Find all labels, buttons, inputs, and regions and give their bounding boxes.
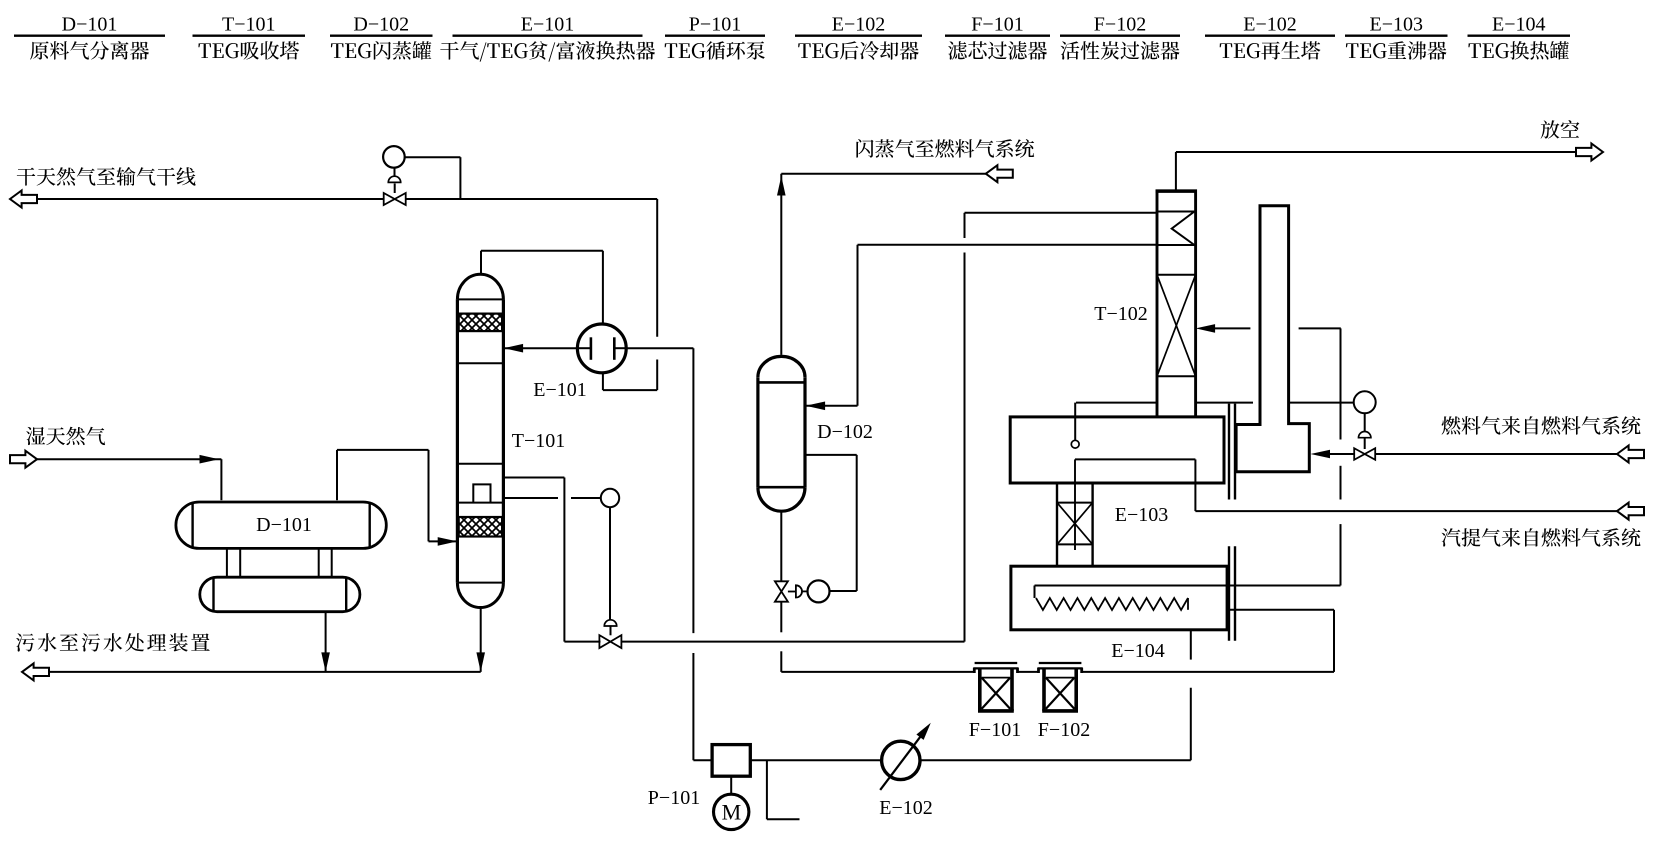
vessel D-101 upper shell xyxy=(176,502,386,548)
fuel valve actuator xyxy=(1359,413,1371,449)
label E-104 xyxy=(1111,640,1165,662)
T-101 chimney tray xyxy=(457,484,503,502)
svg-text:D−102: D−102 xyxy=(817,421,873,443)
stream label 闪蒸气至燃料气系统 xyxy=(856,139,1034,158)
pump P-101 motor xyxy=(714,776,749,829)
filter F-102 lid xyxy=(1038,663,1083,673)
pipe E-102 to E-104 vertical xyxy=(920,630,1191,761)
tank E-104 shell xyxy=(1011,566,1227,630)
control valve fuel gas xyxy=(1354,448,1375,460)
open arrow wastewater outlet xyxy=(22,663,49,680)
svg-text:F−101: F−101 xyxy=(971,14,1023,36)
pipe D-101 interconnect left xyxy=(227,548,240,577)
cooler E-102 shell xyxy=(882,741,920,779)
stream label 污水至污水处理装置 xyxy=(16,633,210,651)
svg-text:E−103: E−103 xyxy=(1115,504,1169,526)
pump P-101 casing xyxy=(712,745,750,777)
filter F-102 body xyxy=(1042,668,1078,711)
svg-text:F−102: F−102 xyxy=(1038,719,1090,741)
T-101 section line xyxy=(457,362,503,364)
T-101 packing band lower xyxy=(459,517,502,537)
instrument circle PCV controller xyxy=(383,146,405,168)
legend entry E-102 TEG后冷却器 xyxy=(795,14,922,60)
stream label 汽提气来自燃料气系统 xyxy=(1442,528,1641,547)
pipe T-102 condensate to D-102 xyxy=(805,245,1157,410)
legend entry D-101 原料气分离器 xyxy=(14,14,165,60)
vessel D-102 shell xyxy=(758,356,805,511)
pipe T-101 chimney draw-off xyxy=(502,478,564,642)
legend entry T-101 TEG吸收塔 xyxy=(193,14,306,60)
pipe filters to E-104 coil xyxy=(1083,610,1334,672)
pipe dry gas sales line xyxy=(37,198,657,200)
E-103 downcomer column xyxy=(1057,459,1093,566)
E-103 right flange xyxy=(1229,404,1235,500)
open arrow fuel gas inlet xyxy=(1617,446,1644,463)
pipe rich TEG riser to T-102 xyxy=(965,213,1158,642)
control valve D-102 drain xyxy=(775,581,788,601)
svg-text:E−102: E−102 xyxy=(1243,14,1297,36)
pipe D-102 level sensing xyxy=(805,455,857,591)
pipe E-103 level sensing line xyxy=(1076,402,1354,404)
legend entry E-103 TEG重沸器 xyxy=(1345,14,1448,60)
legend entry D-102 TEG闪蒸罐 xyxy=(330,14,433,60)
open arrow flash gas outlet xyxy=(986,165,1013,182)
pipe fuel gas to stack xyxy=(1311,450,1618,459)
svg-text:E−103: E−103 xyxy=(1370,14,1424,36)
pipe coil to T-102 riser xyxy=(1340,328,1342,585)
legend entry E-104 TEG换热罐 xyxy=(1468,14,1571,60)
PCV sensing line xyxy=(404,157,460,199)
T-101 chimney tray section line xyxy=(457,463,503,465)
pipe E-101 TEG inlet from pump riser xyxy=(626,347,694,349)
svg-text:M: M xyxy=(722,800,742,825)
svg-text:T−102: T−102 xyxy=(1094,303,1148,325)
filter F-101 lid xyxy=(973,663,1018,673)
pipe riser E-101 to P-101 xyxy=(693,348,712,760)
svg-text:E−102: E−102 xyxy=(879,797,933,819)
legend entry P-101 TEG循环泵 xyxy=(665,14,765,60)
label T-101 xyxy=(512,430,566,452)
instrument circle T-101 level controller xyxy=(502,489,619,507)
pipe wet gas to D-101 xyxy=(37,455,221,500)
legend entry F-101 滤芯过滤器 xyxy=(945,14,1050,60)
svg-text:D−102: D−102 xyxy=(353,14,409,36)
pipe D-101 gas outlet to T-101 xyxy=(337,450,457,546)
stack TEG surge standpipe xyxy=(1236,206,1309,472)
PCV actuator diaphragm xyxy=(388,167,400,193)
exchanger E-101 shell xyxy=(577,324,626,373)
vessel D-101 lower shell xyxy=(200,577,360,612)
svg-text:T−101: T−101 xyxy=(222,14,276,36)
tower T-102 shell xyxy=(1156,191,1197,417)
T-102 packing top line xyxy=(1157,274,1196,276)
pipe T-102 vent xyxy=(1176,152,1576,190)
E-103 level tap with weep hole xyxy=(1071,403,1079,449)
LCV T-101 actuator stem xyxy=(604,507,616,635)
T-102 packing bottom line xyxy=(1157,375,1196,377)
filter F-101 body xyxy=(978,668,1014,711)
instrument circle D-102 level controller xyxy=(808,580,830,602)
node sales line riser corner xyxy=(603,199,657,390)
E-102 diagonal arrow xyxy=(880,723,931,790)
svg-text:E−104: E−104 xyxy=(1111,640,1165,662)
instrument circle fuel gas level controller xyxy=(1354,391,1376,413)
open arrow dry natural gas outlet xyxy=(10,191,37,208)
pipe flash gas from D-102 xyxy=(777,174,986,355)
control valve LCV rich TEG xyxy=(564,635,964,648)
svg-text:P−101: P−101 xyxy=(648,787,700,809)
pipe D-101 drain xyxy=(321,612,330,672)
T-102 reflux coil chevron xyxy=(1172,212,1195,246)
label E-101 xyxy=(533,379,587,401)
E-101 tube sheets xyxy=(579,337,626,360)
legend entry F-102 活性炭过滤器 xyxy=(1060,14,1180,60)
T-101 packing band upper xyxy=(459,314,502,332)
pipe D-101 interconnect right xyxy=(319,548,332,577)
label F-102 xyxy=(1038,719,1090,741)
stream label 燃料气来自燃料气系统 xyxy=(1442,416,1641,435)
open arrow vent xyxy=(1576,144,1603,161)
svg-text:F−102: F−102 xyxy=(1094,14,1146,36)
label E-102 xyxy=(879,797,933,819)
D-102 LCV actuator xyxy=(788,585,808,597)
open arrow wet natural gas inlet xyxy=(10,451,37,468)
label T-102 xyxy=(1094,303,1148,325)
pipe E-101 lean TEG to T-101 xyxy=(504,344,579,353)
stream label 干天然气至输气干线 xyxy=(17,167,196,186)
pipe stripping gas to T-102 packing xyxy=(1196,324,1341,333)
pipe P-101 drain stub xyxy=(767,760,800,819)
stream label 湿天然气 xyxy=(26,427,105,445)
pipe wastewater header xyxy=(49,671,481,673)
T-102 top section line xyxy=(1157,211,1196,213)
pipe D-102 drain to filters xyxy=(781,511,973,672)
svg-text:E−101: E−101 xyxy=(521,14,575,36)
control valve PCV on sales line xyxy=(384,193,406,205)
svg-text:E−102: E−102 xyxy=(832,14,886,36)
label F-101 xyxy=(969,719,1021,741)
svg-text:D−101: D−101 xyxy=(62,14,118,36)
reboiler E-103 shell xyxy=(1010,417,1224,483)
svg-text:E−104: E−104 xyxy=(1492,14,1546,36)
pipe T-101 overhead to E-101 xyxy=(481,251,603,325)
pipe stripping gas supply xyxy=(1075,459,1617,511)
open arrow stripping gas inlet xyxy=(1617,503,1644,520)
tower T-101 shell xyxy=(457,274,503,607)
T-102 packing X xyxy=(1157,275,1196,376)
stream label 放空 xyxy=(1541,120,1580,139)
svg-text:F−101: F−101 xyxy=(969,719,1021,741)
svg-text:E−101: E−101 xyxy=(533,379,587,401)
E-104 heating coil xyxy=(1035,586,1341,611)
pipe between filters xyxy=(1019,671,1038,673)
legend entry E-101 干气/TEG贫/富液换热器 xyxy=(440,14,655,62)
pipe P-101 discharge xyxy=(750,759,882,761)
T-102 coil bottom line xyxy=(1157,244,1196,246)
svg-text:D−101: D−101 xyxy=(256,514,312,536)
E-104 right flange xyxy=(1229,546,1235,641)
label P-101 xyxy=(648,787,700,809)
pipe T-101 drain xyxy=(476,608,485,672)
svg-text:T−101: T−101 xyxy=(512,430,566,452)
label D-101 xyxy=(256,514,312,536)
label D-102 xyxy=(817,421,873,443)
label E-103 xyxy=(1115,504,1169,526)
legend entry E-102 TEG再生塔 xyxy=(1205,14,1335,60)
svg-text:P−101: P−101 xyxy=(689,14,741,36)
